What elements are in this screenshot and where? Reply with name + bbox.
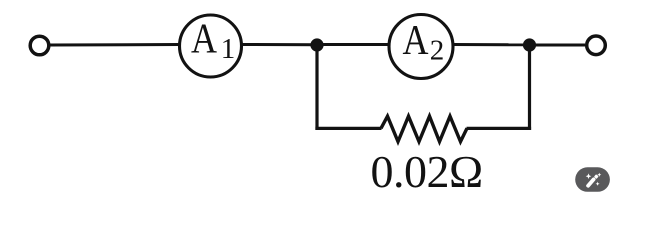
wire (bottom right horizontal from resistor) [467, 127, 532, 130]
wire (right vertical drop to node N2) [528, 45, 531, 130]
svg-text:1: 1 [221, 33, 236, 65]
wire (left terminal to ammeter A1) [50, 43, 180, 47]
resistor R1 (zigzag) [381, 116, 467, 141]
svg-text:A: A [403, 18, 430, 64]
terminal T1 (left open-circle input) [30, 36, 49, 55]
terminal T2 (right open-circle output) [587, 36, 606, 55]
svg-text:A: A [191, 16, 218, 62]
wire (left vertical drop from node N1) [315, 45, 318, 130]
ammeter A2 [389, 15, 453, 79]
svg-text:0.02Ω: 0.02Ω [371, 146, 483, 197]
svg-text:2: 2 [430, 35, 445, 67]
wire (ammeter A1 to node N1) [242, 43, 317, 46]
wire (ammeter A2 to node N2) [453, 43, 530, 46]
node N2 (junction dot) [523, 38, 536, 51]
wire (bottom left horizontal to resistor) [315, 127, 381, 130]
wire (node N2 to right terminal) [530, 44, 585, 47]
wire (node N1 to ammeter A2) [317, 43, 390, 46]
edit button (gray pill with magic-wand icon) [575, 167, 610, 192]
node N1 (junction dot) [310, 38, 323, 51]
ammeter A1 [180, 15, 242, 77]
